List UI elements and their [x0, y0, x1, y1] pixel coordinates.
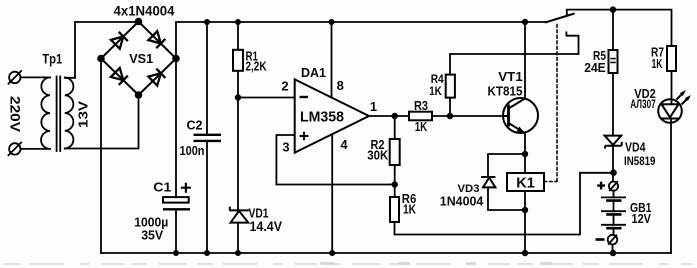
svg-text:DA1: DA1	[301, 65, 326, 80]
svg-text:C1: C1	[153, 181, 171, 195]
svg-text:4: 4	[340, 137, 348, 152]
svg-text:VT1: VT1	[498, 69, 523, 84]
svg-text:IN5819: IN5819	[624, 156, 656, 168]
svg-text:8: 8	[337, 78, 344, 93]
svg-text:VS1: VS1	[129, 51, 153, 66]
svg-text:1K: 1K	[652, 57, 663, 71]
svg-text:2: 2	[281, 78, 288, 93]
svg-text:2,2K: 2,2K	[246, 60, 267, 74]
svg-text:30K: 30K	[367, 148, 388, 162]
svg-text:14.4V: 14.4V	[250, 218, 283, 234]
svg-text:24E: 24E	[584, 61, 606, 75]
svg-text:K1: K1	[516, 176, 535, 192]
svg-text:35V: 35V	[141, 228, 164, 242]
svg-text:1N4004: 1N4004	[440, 193, 484, 208]
svg-text:Tp1: Tp1	[42, 52, 62, 67]
svg-text:1K: 1K	[403, 203, 416, 217]
svg-text:KT815: KT815	[488, 83, 523, 98]
svg-text:LM358: LM358	[300, 110, 344, 126]
svg-text:100n: 100n	[180, 144, 205, 158]
svg-text:3: 3	[282, 140, 289, 155]
svg-text:R4: R4	[431, 74, 445, 86]
svg-text:12V: 12V	[632, 211, 652, 226]
svg-text:R3: R3	[414, 99, 428, 113]
svg-text:220V: 220V	[7, 96, 22, 132]
svg-text:1K: 1K	[429, 86, 442, 98]
svg-text:1K: 1K	[415, 120, 428, 134]
svg-text:C2: C2	[187, 119, 203, 133]
svg-text:4x1N4004: 4x1N4004	[114, 3, 175, 19]
svg-text:VD4: VD4	[625, 141, 646, 155]
svg-text:1: 1	[370, 99, 377, 114]
svg-text:13V: 13V	[77, 100, 91, 128]
svg-text:АЛ307: АЛ307	[630, 99, 656, 111]
